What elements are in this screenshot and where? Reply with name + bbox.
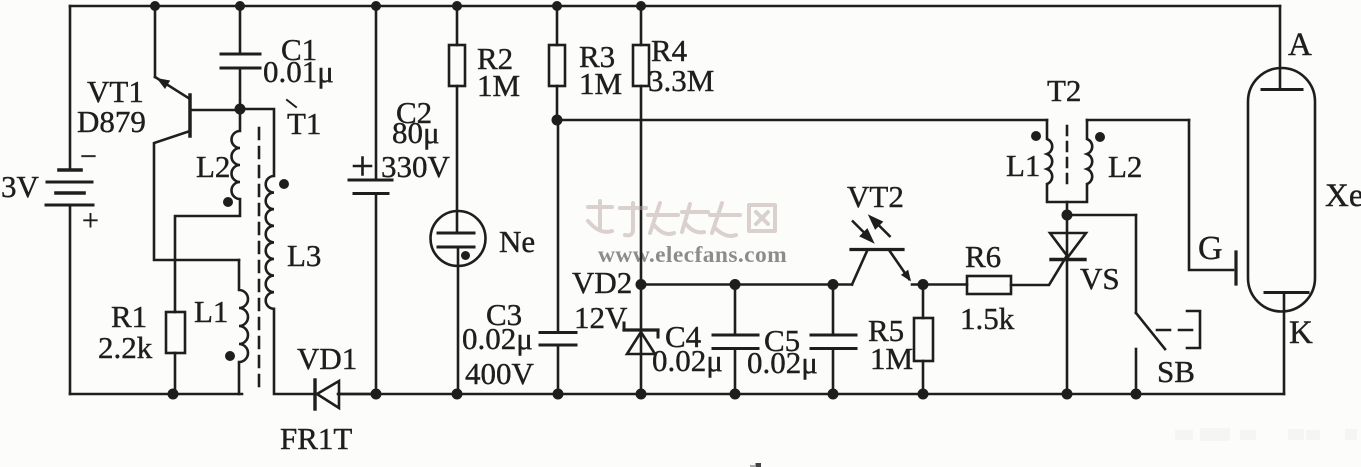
svg-text:VD2: VD2 <box>572 265 632 300</box>
svg-text:L2: L2 <box>1108 149 1142 184</box>
svg-text:+: + <box>82 204 99 237</box>
svg-text:0.02μ: 0.02μ <box>652 343 723 378</box>
svg-text:VD1: VD1 <box>297 341 357 376</box>
svg-text:Xe: Xe <box>1325 178 1361 214</box>
svg-text:R6: R6 <box>965 239 1001 274</box>
svg-text:1M: 1M <box>477 68 520 103</box>
svg-text:3V: 3V <box>1 169 40 204</box>
svg-text:D879: D879 <box>77 104 146 139</box>
svg-text:80μ: 80μ <box>392 115 440 150</box>
svg-text:12V: 12V <box>574 300 628 335</box>
svg-text:VT2: VT2 <box>847 179 904 214</box>
svg-text:1M: 1M <box>870 341 913 376</box>
svg-text:L1: L1 <box>194 294 228 329</box>
svg-text:330V: 330V <box>381 149 451 184</box>
svg-text:R1: R1 <box>111 299 147 334</box>
svg-text:G: G <box>1198 230 1223 267</box>
svg-text:0.01μ: 0.01μ <box>263 54 334 89</box>
svg-text:T2: T2 <box>1047 73 1081 108</box>
svg-text:L2: L2 <box>196 149 230 184</box>
svg-text:L3: L3 <box>287 238 321 273</box>
svg-text:www.elecfans.com: www.elecfans.com <box>598 242 787 268</box>
svg-text:FR1T: FR1T <box>280 421 352 456</box>
svg-text:K: K <box>1289 315 1313 351</box>
svg-text:1.5k: 1.5k <box>960 301 1015 336</box>
svg-text:3.3M: 3.3M <box>648 63 714 98</box>
svg-text:VS: VS <box>1080 261 1120 296</box>
svg-text:0.02μ: 0.02μ <box>462 321 533 356</box>
svg-text:T1: T1 <box>287 106 321 141</box>
svg-text:Ne: Ne <box>499 224 535 259</box>
svg-text:1M: 1M <box>579 66 622 101</box>
svg-text:L1: L1 <box>1006 148 1040 183</box>
svg-text:A: A <box>1288 27 1312 63</box>
svg-text:0.02μ: 0.02μ <box>747 345 818 380</box>
svg-text:2.2k: 2.2k <box>98 330 153 365</box>
svg-text:−: − <box>80 140 97 173</box>
svg-text:SB: SB <box>1157 354 1195 389</box>
svg-text:400V: 400V <box>465 356 535 391</box>
